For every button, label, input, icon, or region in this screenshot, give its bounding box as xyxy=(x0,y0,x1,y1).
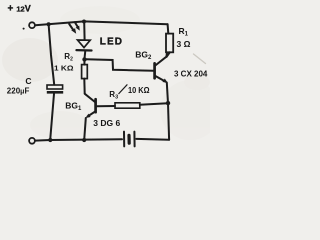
node: R3/BG2 emitter junction xyxy=(166,101,170,105)
LED cathode bar xyxy=(77,49,92,52)
battery cell bar (short thick middle) xyxy=(127,135,130,143)
LED light arrow 1 xyxy=(69,24,73,30)
svg-text:3 CX 204: 3 CX 204 xyxy=(174,69,208,78)
BG2 collector lead xyxy=(155,53,167,66)
node: cap top junction xyxy=(47,22,51,26)
node: LED/R2/base junction xyxy=(82,57,86,61)
svg-text:1 KΩ: 1 KΩ xyxy=(54,63,74,72)
transistor BG1 base bar xyxy=(94,99,97,112)
node: cap bottom junction xyxy=(48,138,52,142)
svg-text:220μF: 220μF xyxy=(7,87,30,96)
LED diode triangle xyxy=(78,40,91,48)
resistor R1 box xyxy=(166,34,173,53)
resistor R2 box xyxy=(82,65,88,79)
svg-text:+12V: +12V xyxy=(8,4,31,15)
wire: R2 top lead xyxy=(83,59,85,64)
speck dot xyxy=(23,28,25,30)
resistor R3 box xyxy=(115,103,140,108)
bottom rail wire (left of battery) xyxy=(35,139,122,140)
top rail wire xyxy=(35,21,167,25)
capacitor C (top hollow plate) xyxy=(47,85,63,89)
negative terminal xyxy=(29,138,35,144)
battery cell bar (tall right) xyxy=(133,132,135,147)
svg-text:LED: LED xyxy=(100,36,123,47)
transistor BG2 base bar xyxy=(153,63,156,78)
wire: R3 right lead xyxy=(140,103,168,105)
paper background xyxy=(0,0,210,149)
BG1 base lead xyxy=(97,105,115,107)
scan artifact: faint diagonal xyxy=(194,54,206,64)
wire: LED cathode lead xyxy=(84,51,87,58)
BG2 emitter with arrow xyxy=(155,76,165,82)
wire: BG1 emitter down xyxy=(84,118,86,140)
wire: R1 bottom lead xyxy=(167,52,170,57)
LED light arrow 2 xyxy=(75,22,78,27)
BG1 collector lead xyxy=(85,94,95,102)
BG1 emitter with arrow xyxy=(87,112,95,117)
wire: LED anode lead xyxy=(83,22,85,40)
wire: BG2 emitter down xyxy=(167,83,169,140)
svg-text:C: C xyxy=(25,76,31,86)
label pointer slash xyxy=(119,85,127,94)
svg-text:3 DG 6: 3 DG 6 xyxy=(93,118,120,128)
node: BG1 emitter bottom junction xyxy=(82,138,86,142)
wire: R2 bottom lead xyxy=(83,79,85,94)
capacitor C (bottom solid plate) xyxy=(47,91,63,94)
svg-text:10 KΩ: 10 KΩ xyxy=(128,86,150,95)
svg-text:3 Ω: 3 Ω xyxy=(177,39,191,49)
bottom rail wire (right of battery) xyxy=(136,138,169,141)
wire: junction to BG2 base xyxy=(86,59,153,70)
resistor R1: rail corner lead xyxy=(167,24,170,33)
positive terminal xyxy=(29,22,35,28)
node: LED branch top junction xyxy=(82,20,86,24)
battery cell bar (tall left) xyxy=(123,132,125,147)
wire: cap bottom lead xyxy=(50,94,54,140)
wire: cap top lead xyxy=(49,24,55,84)
